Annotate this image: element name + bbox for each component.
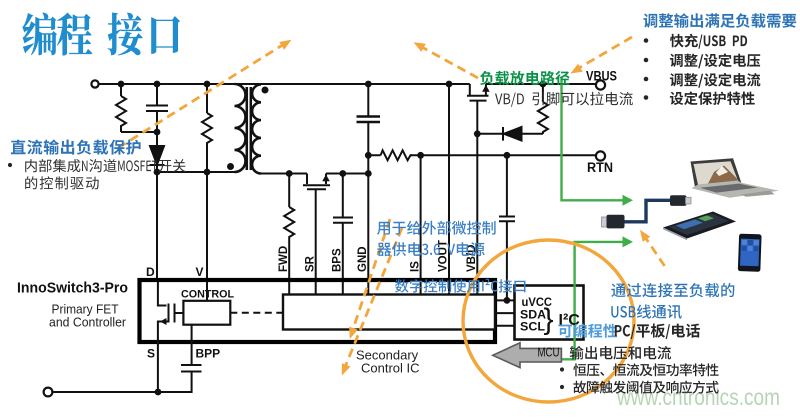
text label: 内部集成N沟道MOSFET开关 [25, 159, 186, 172]
arrow VB/D FET [482, 85, 490, 92]
terminal DC input - [44, 388, 53, 397]
annotation dashed arrow up-left [421, 47, 478, 78]
tablet [663, 212, 736, 241]
junction (506.9,300.4) [504, 297, 511, 304]
text label: 的控制驱动 [25, 176, 99, 189]
junction (368.3,84) [365, 81, 372, 88]
junction (207,172) [204, 169, 211, 176]
latin text labels [17, 69, 780, 411]
orange dashed arrows [118, 37, 665, 366]
text label: 编程接口 [22, 13, 180, 56]
junction (265,90) [262, 87, 269, 94]
svg-text:VBUS: VBUS [586, 69, 617, 84]
svg-text:MCU: MCU [538, 346, 560, 360]
text label: 直流输出负载保护 [11, 140, 141, 155]
transistor Q1 SR FET [303, 174, 330, 186]
capacitor C2 output [357, 84, 381, 278]
capacitor C5 BPP [158, 325, 202, 392]
svg-text:IS: IS [409, 261, 421, 272]
junction (420.6,155.3) [417, 152, 424, 159]
svg-text:BPS: BPS [332, 248, 344, 272]
orange highlight circle [463, 240, 634, 402]
wire RTN rail [411, 154, 597, 156]
text label: 调整/设定电压 [670, 53, 760, 68]
svg-text:Control IC: Control IC [361, 361, 420, 376]
transformer T1 secondary winding [252, 85, 261, 174]
svg-text:InnoSwitch3-Pro: InnoSwitch3-Pro [17, 280, 128, 297]
junction (477.3,133.8) [474, 130, 481, 137]
dashed link control to secondary [230, 312, 283, 314]
junction (157,172) [154, 169, 161, 176]
terminal node VBUS [596, 80, 605, 89]
transformer T1 core [247, 87, 251, 170]
wire VB/D gate line [476, 101, 478, 278]
transistor Q2 VB/D discharge FET [467, 84, 489, 96]
junction (230.5,166.5)x [227, 163, 234, 170]
wire top rail right of VB/D fet [486, 83, 596, 85]
wire secondary bottom left [261, 173, 307, 175]
resistor R2 bleed [202, 84, 212, 172]
terminal node RTN [596, 151, 605, 160]
terminals [44, 80, 606, 396]
junction (207,84) [204, 81, 211, 88]
text label: VB/D 引脚可以拉电流 [495, 92, 633, 107]
svg-text:SR: SR [304, 255, 316, 272]
junction (342.8,173.5) [339, 170, 346, 177]
wire V pin line [206, 172, 208, 278]
annotation dashed arrow to title [118, 45, 283, 148]
wire R4 to diode [522, 133, 543, 135]
wires IC to uVCC box [495, 300, 515, 325]
junction (157,132) [154, 129, 161, 136]
resistor R5 FWD [284, 174, 294, 279]
arrow primary FET source [160, 318, 167, 325]
control block U1a [183, 301, 230, 325]
svg-text:D: D [146, 265, 155, 279]
svg-text:www.cntronics.com: www.cntronics.com [616, 384, 780, 410]
text label: 输出电压和电流 [570, 346, 671, 360]
junction (158,392) [155, 389, 162, 396]
text label: 设定保护特性 [670, 91, 755, 105]
svg-text:}: } [544, 303, 554, 336]
wire secondary bottom right [326, 173, 368, 175]
text label: 故障触发阈值及响应方式 [573, 381, 718, 394]
phone [738, 234, 762, 272]
text label: 调整/设定电流 [670, 73, 761, 88]
junction (542.9,84) [540, 81, 547, 88]
svg-text:FWD: FWD [278, 246, 290, 272]
junction (368.3,155.3) [365, 152, 372, 159]
pin stubs inside IC [207, 282, 477, 301]
text label: 器供电3.6 V电源 [377, 242, 485, 256]
text label: 用于给外部微控制 [377, 221, 496, 235]
green annotation lines [546, 77, 624, 359]
text label: PC/平板/电话 [615, 324, 700, 340]
text label: USB线通讯 [611, 304, 681, 318]
USB plug B [670, 195, 691, 206]
text label: 负载放电路径 [480, 71, 570, 85]
resistor R4 pull [538, 84, 548, 134]
text label: 调整输出满足负载需要 [643, 13, 796, 28]
transistor Q3 primary FET inside IC [158, 282, 169, 323]
annotation dashed arrow from load text [578, 37, 632, 69]
junction (289.2,173.5) [286, 170, 293, 177]
text label: 恒压、恒流及恒功率特性 [573, 363, 718, 376]
green line MCU to usb [546, 242, 624, 359]
laptop [691, 158, 780, 198]
svg-text:RTN: RTN [587, 160, 613, 175]
wire D pin line [156, 172, 158, 278]
arrow SR FET [322, 175, 330, 182]
wire bottom primary rail [53, 391, 192, 393]
USB cable [624, 200, 671, 222]
svg-text:V: V [196, 265, 204, 279]
IC U1 InnoSwitch3-Pro box [140, 280, 496, 342]
wire top rail left of VB/D fet [99, 83, 470, 85]
wire SR gate to SR pin [315, 189, 317, 278]
wire IS pin [420, 155, 422, 278]
svg-text:CONTROL: CONTROL [181, 289, 234, 301]
wire primary bottom [157, 171, 235, 173]
wire snubber join [121, 131, 157, 133]
annotation dashed arrow to secondary IC 1 [353, 219, 390, 330]
text label: 通过连接至负载的 [611, 283, 734, 297]
junction (121,84) [118, 81, 125, 88]
capacitor C1 snubber [146, 84, 168, 132]
junction (157,84) [154, 81, 161, 88]
bullets [8, 38, 648, 389]
transformer T1 primary winding [235, 84, 246, 172]
annotation dashed arrow to secondary IC 2 [346, 228, 402, 366]
junction (368.3,173.5) [365, 170, 372, 177]
svg-text:GND: GND [357, 246, 369, 272]
grey arrow to MCU [493, 343, 562, 368]
green line VBUS to usb [562, 77, 625, 200]
secondary controller block U1b [283, 295, 495, 330]
annotation dashed arrow to USB cable [645, 237, 665, 266]
junction (506.9,155.3) [504, 152, 511, 159]
resistor R1 snubber [116, 84, 126, 132]
svg-text:S: S [147, 347, 155, 361]
wire diode to gate node [477, 133, 503, 135]
wire VOUT pin [448, 84, 450, 278]
svg-text:and Controller: and Controller [49, 315, 127, 330]
diode D1 clamp [150, 132, 165, 172]
junction (449,84) [446, 81, 453, 88]
text label: 快充/USB PD [670, 34, 747, 49]
capacitor C4 uVCC [499, 155, 515, 300]
uVCC interface box [515, 286, 584, 340]
USB plug A [602, 215, 625, 229]
capacitor C3 BPS [333, 174, 353, 279]
text label: 可编程性 [558, 324, 617, 338]
resistor R3 current sense [368, 150, 412, 160]
svg-text:SCL: SCL [520, 320, 545, 334]
text label: 数字控制使用I²C接口 [395, 279, 526, 293]
svg-text:BPP: BPP [196, 347, 221, 361]
terminal DC input + [91, 80, 98, 87]
diode D2 [502, 127, 504, 141]
